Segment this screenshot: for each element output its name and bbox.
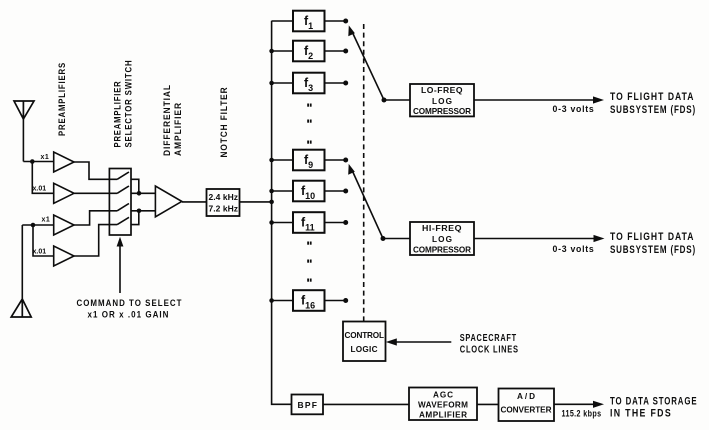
wire antenna E2 to node B (21, 225, 23, 299)
svg-text:115.2 kbps: 115.2 kbps (562, 409, 602, 419)
svg-text:CONVERTER: CONVERTER (501, 406, 552, 415)
wire A3 output to switch input 3 (74, 211, 109, 225)
ellipsis marks between f11 and f16 (307, 242, 311, 282)
svg-text:LOG: LOG (432, 235, 452, 244)
wire A4 output to switch input 4 (74, 225, 109, 256)
preamplifier A1 gain x1 (54, 152, 74, 172)
bandpass filter f3 (269, 73, 348, 94)
svg-text:x.01: x.01 (33, 186, 47, 193)
preamplifier A4 gain x.01 (54, 246, 74, 266)
selector arm to f9 (hi-freq) (348, 164, 385, 241)
svg-text:COMMAND TO SELECT: COMMAND TO SELECT (77, 298, 183, 308)
wire node A to preamplifier x.01 input (32, 162, 53, 194)
svg-text:f11: f11 (301, 216, 315, 233)
svg-text:LO-FREQ: LO-FREQ (421, 85, 463, 95)
svg-text:f1: f1 (304, 14, 313, 31)
svg-text:AMPLIFIER: AMPLIFIER (173, 102, 183, 156)
wire switch output 4 to node D (131, 211, 139, 225)
switch contact 1 (109, 172, 129, 179)
bandpass filter f11 (269, 212, 348, 233)
svg-text:f16: f16 (301, 294, 315, 311)
svg-text:WAVEFORM: WAVEFORM (418, 401, 468, 410)
svg-text:DIFFERENTIAL: DIFFERENTIAL (162, 84, 172, 156)
wire notch filter to bus node E (240, 201, 272, 203)
svg-text:TO DATA STORAGE: TO DATA STORAGE (610, 396, 698, 408)
wire switch output 2 / node C to differential amplifier (131, 192, 155, 194)
svg-text:AMPLIFIER: AMPLIFIER (419, 411, 467, 420)
wire antenna E1 to node A (22, 118, 24, 162)
svg-text:f9: f9 (304, 153, 313, 170)
svg-text:A/D: A/D (517, 392, 535, 401)
svg-text:SUBSYSTEM (FDS): SUBSYSTEM (FDS) (610, 244, 696, 256)
svg-text:PREAMPLIFIERS: PREAMPLIFIERS (57, 62, 67, 136)
wire A2 output to switch input 2 (74, 192, 109, 194)
svg-text:f3: f3 (304, 76, 313, 93)
svg-text:x1: x1 (42, 217, 51, 224)
notch filter FL1 box (207, 189, 240, 216)
svg-text:IN THE FDS: IN THE FDS (610, 408, 672, 420)
AGC waveform amplifier U5 box (409, 388, 477, 421)
bandpass filter f10 (269, 181, 348, 202)
preamplifier A3 gain x1 (54, 215, 74, 235)
svg-text:2.4 kHz: 2.4 kHz (209, 192, 239, 202)
bandpass filter f1 (272, 11, 349, 32)
wire U5 to A/D converter (477, 403, 499, 405)
wire arm node to LO-FREQ compressor (384, 99, 410, 101)
bandpass filter f9 (269, 150, 348, 171)
svg-text:0-3 volts: 0-3 volts (553, 104, 595, 115)
svg-text:SPACECRAFT: SPACECRAFT (460, 333, 517, 344)
svg-text:SELECTOR SWITCH: SELECTOR SWITCH (124, 60, 134, 148)
svg-text:TO FLIGHT DATA: TO FLIGHT DATA (610, 91, 695, 103)
svg-text:x1: x1 (41, 154, 50, 161)
switch contact 4 (109, 217, 129, 224)
svg-text:x1 OR x .01 GAIN: x1 OR x .01 GAIN (88, 310, 170, 320)
switch contact 3 (109, 204, 129, 211)
node B junction (31, 223, 36, 228)
bus wire (main distribution line) (272, 21, 292, 405)
wire U6 output arrow (554, 401, 604, 408)
svg-text:CLOCK LINES: CLOCK LINES (460, 344, 519, 355)
svg-text:f10: f10 (301, 184, 315, 201)
antenna E2 (bottom) (11, 299, 31, 317)
antenna E1 (top) (14, 101, 34, 119)
svg-text:7.2 kHz: 7.2 kHz (209, 204, 239, 214)
A/D converter U6 box (499, 389, 555, 422)
LO-FREQ log compressor U2 box (410, 84, 474, 116)
wire U1 output to notch filter (182, 201, 207, 203)
ellipsis marks between f3 and f9 (307, 104, 311, 144)
svg-text:CONTROL: CONTROL (345, 331, 385, 340)
wire U3 output arrow (474, 235, 605, 242)
svg-text:SUBSYSTEM (FDS): SUBSYSTEM (FDS) (610, 104, 696, 116)
svg-text:COMPRESSOR: COMPRESSOR (413, 246, 471, 255)
node E junction on bus (269, 200, 274, 205)
node D junction (137, 209, 142, 214)
svg-text:f2: f2 (304, 44, 313, 61)
command select arrow into switch S1 (117, 237, 124, 293)
selector arm to f1 (lo-freq) (348, 25, 386, 102)
bandpass filter BPF box (292, 395, 324, 415)
preamplifier selector switch S1 box (109, 169, 131, 236)
svg-text:BPF: BPF (298, 400, 318, 410)
svg-text:0-3 volts: 0-3 volts (553, 244, 595, 255)
wire node B to preamplifier x.01 (lower) input (33, 225, 54, 256)
svg-text:COMPRESSOR: COMPRESSOR (413, 107, 471, 116)
wire node A to preamplifier x1 input (23, 161, 53, 163)
wire switch output 1 to node C (131, 179, 139, 193)
svg-text:HI-FREQ: HI-FREQ (422, 223, 462, 233)
spacecraft clock arrow into U4 (386, 338, 452, 345)
wire arm node to HI-FREQ compressor (383, 238, 410, 240)
node A junction (30, 159, 35, 164)
node C junction (137, 191, 142, 196)
svg-text:PREAMPLIFIER: PREAMPLIFIER (113, 81, 123, 148)
svg-text:LOGIC: LOGIC (351, 345, 378, 354)
bandpass filter f16 (269, 290, 348, 311)
dashed control linkage line (363, 24, 365, 321)
control logic U4 box (343, 322, 386, 362)
HI-FREQ log compressor U3 box (410, 222, 474, 255)
svg-text:TO FLIGHT DATA: TO FLIGHT DATA (610, 231, 695, 243)
wire U2 output arrow (474, 96, 604, 103)
wire A1 output to switch input 1 (74, 162, 109, 179)
svg-text:x.01: x.01 (33, 249, 47, 256)
preamplifier A2 gain x.01 (54, 183, 74, 203)
svg-text:NOTCH FILTER: NOTCH FILTER (219, 87, 229, 158)
switch contact 2 (109, 186, 129, 193)
bandpass filter f2 (269, 41, 348, 62)
op-amp U1 differential amplifier (155, 186, 181, 217)
svg-text:AGC: AGC (433, 391, 453, 400)
wire BPF to AGC amplifier (323, 403, 409, 405)
wire node B to preamplifier x1 (lower) input (22, 224, 53, 226)
wire switch output 3 / node D to differential amplifier (131, 210, 155, 212)
svg-text:LOG: LOG (432, 97, 452, 106)
